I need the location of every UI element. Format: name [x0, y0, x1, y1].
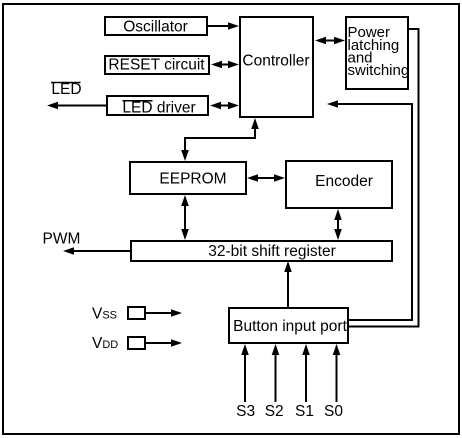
svg-text:Oscillator: Oscillator	[123, 18, 188, 35]
pin: VDD square	[128, 337, 145, 349]
svg-text:PWM: PWM	[43, 231, 81, 248]
wire: Controller to Power latching (double arrow)	[315, 37, 345, 45]
wire: S3 input arrow	[241, 344, 249, 402]
svg-text:switching: switching	[348, 62, 410, 79]
wire: PWM output arrow	[63, 247, 131, 255]
block: Button input port	[229, 308, 348, 343]
wire: Button input port to shift register (arrow up)	[284, 261, 292, 308]
wire: LED output arrow (to LED pin label)	[47, 102, 107, 110]
wire: S1 input arrow	[302, 344, 310, 402]
block: Oscillator	[105, 17, 207, 35]
wire: LED driver to Controller (double arrow)	[210, 102, 239, 110]
svg-text:EEPROM: EEPROM	[159, 170, 226, 187]
block: LED driver (with overline on LED)	[107, 96, 208, 116]
wire: VSS arrow	[146, 309, 182, 317]
pin: VSS square	[128, 307, 145, 319]
wire: Controller bottom to EEPROM top (bidirectional zigzag)	[181, 118, 259, 161]
svg-text:32-bit shift register: 32-bit shift register	[208, 243, 336, 260]
svg-text:S3: S3	[236, 403, 255, 420]
block: RESET circuit	[105, 56, 209, 74]
wire: EEPROM to shift register (double vertical arrow)	[181, 195, 189, 240]
wire: VDD arrow	[146, 339, 182, 347]
block: Encoder	[286, 161, 392, 208]
block: EEPROM	[130, 162, 246, 194]
wire: Oscillator to Controller (arrow right)	[207, 22, 239, 30]
block: 32-bit shift register	[131, 241, 392, 261]
svg-text:LED: LED	[51, 81, 81, 98]
svg-text:Button input port: Button input port	[233, 318, 347, 335]
block: Controller	[240, 17, 313, 117]
svg-text:S2: S2	[265, 403, 284, 420]
wire: RESET circuit to Controller (double arrow)	[211, 61, 239, 69]
svg-text:Encoder: Encoder	[315, 173, 373, 190]
wire: EEPROM to Encoder (double arrow)	[247, 174, 285, 182]
wire: S2 input arrow	[272, 344, 280, 402]
wire: Encoder to shift register (double vertical arrow)	[334, 209, 342, 240]
svg-text:LED driver: LED driver	[122, 99, 195, 116]
svg-text:S1: S1	[295, 403, 314, 420]
wire: Button input port to Controller feedback rail (arrow left)	[327, 100, 412, 320]
wire: S0 input arrow	[333, 344, 341, 402]
block: Power latching and switching	[346, 17, 409, 89]
svg-text:RESET circuit: RESET circuit	[108, 57, 205, 74]
svg-text:Controller: Controller	[242, 53, 309, 70]
svg-text:S0: S0	[324, 403, 343, 420]
label: LED (overlined)	[51, 81, 82, 98]
wire: Power latching to Button input port rail	[349, 29, 419, 327]
